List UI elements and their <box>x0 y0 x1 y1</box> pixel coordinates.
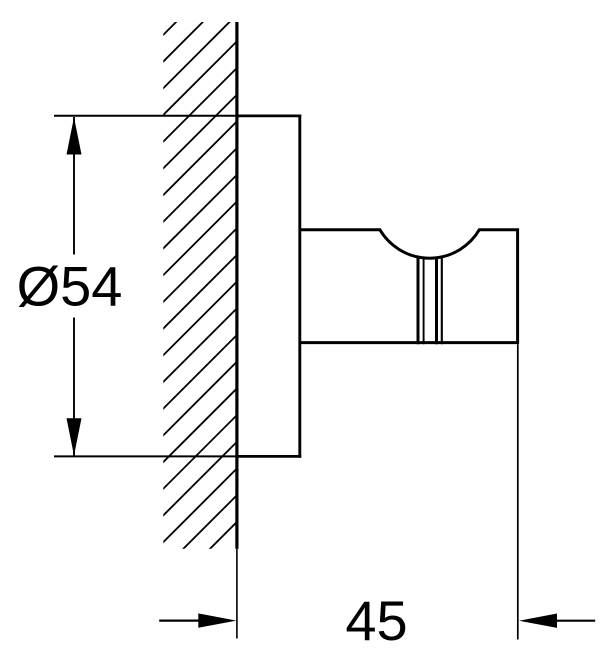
wall face line <box>235 22 238 549</box>
hook outline <box>300 230 518 343</box>
hook highlight line 4 <box>441 258 443 345</box>
svg-text:45: 45 <box>345 589 407 652</box>
hook highlight line 3 <box>435 258 438 345</box>
arrowhead down <box>67 418 82 455</box>
arrowhead up <box>67 117 82 154</box>
wall hatching <box>162 0 238 597</box>
dimension line Ø54 upper segment <box>73 117 75 255</box>
flange right edge <box>298 115 301 458</box>
hook highlight line 2 <box>423 258 425 345</box>
dimension 45 right line <box>556 620 595 622</box>
dimension line Ø54 lower segment <box>73 318 75 456</box>
svg-text:Ø54: Ø54 <box>17 255 123 318</box>
arrowhead right <box>198 613 236 627</box>
flange top edge <box>237 115 301 118</box>
flange bottom edge <box>237 455 301 458</box>
flange bottom edge extension line <box>54 455 237 457</box>
dimension 45 left line <box>159 619 205 621</box>
wall extension line <box>236 549 238 639</box>
arrowhead left <box>519 614 557 628</box>
hook highlight line 1 <box>417 258 420 345</box>
hook tip extension line <box>517 344 519 639</box>
flange top edge extension line <box>54 115 237 117</box>
